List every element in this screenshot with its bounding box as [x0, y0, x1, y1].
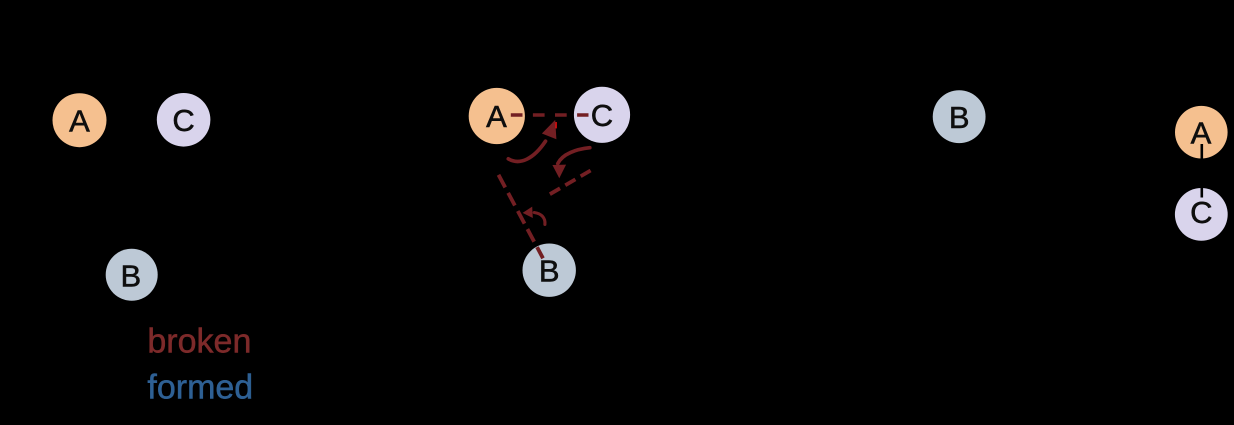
- node B (panel 3 atom B): [933, 90, 986, 143]
- wire A-B bond (panel 1, black on black): [88, 145, 123, 250]
- svg-text:formed: formed: [147, 368, 253, 406]
- wire B-C partial bond (dashed maroon): [550, 171, 591, 195]
- svg-text:C: C: [1190, 195, 1212, 230]
- wire C-B bond (panel 1, black on black): [140, 145, 175, 250]
- svg-text:A: A: [69, 104, 90, 139]
- node C (panel 2 atom C): [574, 87, 630, 143]
- node B (panel 2 atom B): [523, 244, 576, 297]
- red tick marker: [555, 122, 556, 128]
- svg-text:C: C: [172, 103, 194, 138]
- wire A-C bond (panel 4): [1201, 144, 1204, 198]
- curved arrow 3 (small, at A-B bond): [523, 207, 545, 225]
- wire A-C breaking bond (dashed maroon): [511, 113, 589, 117]
- curved arrow 1 (to A-C bond): [508, 120, 556, 162]
- wire A-B partial bond (dashed maroon): [499, 175, 544, 258]
- node A (panel 4 atom A): [1175, 106, 1228, 159]
- svg-text:B: B: [120, 258, 141, 293]
- node C (panel 4 atom C): [1175, 188, 1228, 241]
- node A (panel 2 atom A): [469, 88, 525, 144]
- svg-text:C: C: [591, 98, 613, 133]
- node B (panel 1 atom B): [106, 249, 158, 301]
- svg-text:broken: broken: [147, 322, 251, 360]
- node C (panel 1 atom C): [157, 93, 211, 147]
- node A (panel 1 atom A): [53, 93, 107, 147]
- svg-text:A: A: [486, 99, 507, 134]
- svg-text:B: B: [949, 100, 970, 135]
- curved arrow 2 (from C down-left): [552, 148, 589, 179]
